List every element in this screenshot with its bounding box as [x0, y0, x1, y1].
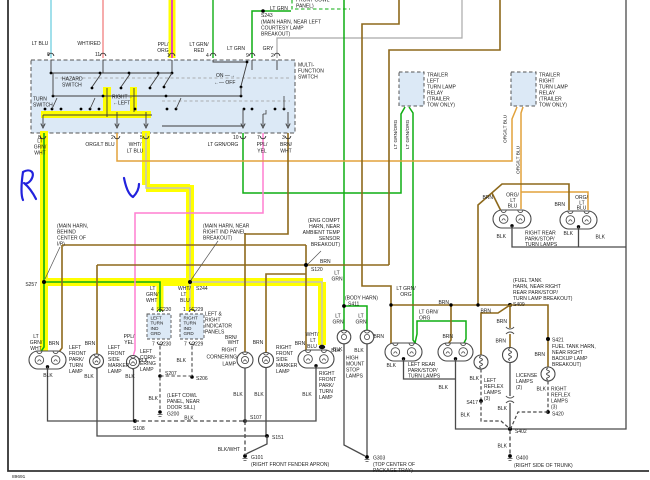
svg-text:BRN: BRN	[49, 341, 60, 347]
svg-text:⌜C229: ⌜C229	[189, 307, 204, 313]
svg-text:LAMPS: LAMPS	[346, 374, 364, 380]
svg-text:4: 4	[206, 53, 209, 59]
svg-text:PANEL): PANEL)	[296, 4, 314, 10]
svg-text:BLK/WHT: BLK/WHT	[218, 447, 240, 453]
svg-text:PPL/: PPL/	[257, 142, 268, 148]
svg-text:BRN: BRN	[85, 341, 96, 347]
svg-text:BLK: BLK	[139, 358, 149, 364]
svg-text:BLK: BLK	[461, 413, 471, 419]
svg-text:BRN: BRN	[496, 319, 507, 325]
svg-text:4: 4	[151, 307, 154, 313]
svg-text:⌜C229: ⌜C229	[189, 342, 204, 348]
svg-text:BLK: BLK	[439, 385, 449, 391]
svg-text:BLK: BLK	[125, 374, 135, 380]
svg-text:YEL: YEL	[124, 340, 134, 346]
svg-text:BLK: BLK	[564, 231, 574, 237]
svg-text:⌜C230: ⌜C230	[157, 342, 172, 348]
svg-text:←LEFT: ←LEFT	[113, 101, 130, 107]
svg-text:BLK: BLK	[84, 374, 94, 380]
svg-text:3: 3	[282, 135, 285, 141]
svg-text:BREAKOUT): BREAKOUT)	[311, 242, 341, 248]
svg-text:S411: S411	[348, 302, 360, 308]
svg-text:BRN: BRN	[438, 300, 449, 306]
svg-text:LT GRN: LT GRN	[270, 6, 288, 12]
svg-text:S243: S243	[261, 13, 273, 19]
svg-text:BLK: BLK	[331, 348, 341, 354]
svg-text:LT GRN/ORG: LT GRN/ORG	[208, 142, 239, 148]
svg-text:(3): (3)	[551, 405, 557, 411]
svg-text:WHT: WHT	[280, 149, 291, 155]
svg-text:BRN: BRN	[320, 259, 331, 265]
svg-text:S402: S402	[515, 429, 527, 435]
svg-text:G200: G200	[167, 412, 179, 418]
svg-text:BLK: BLK	[184, 416, 194, 422]
svg-text:LT GRN/ORG: LT GRN/ORG	[405, 119, 411, 149]
svg-text:LT BLU: LT BLU	[127, 149, 144, 155]
svg-text:7: 7	[257, 135, 260, 141]
svg-text:TURN LAMPS: TURN LAMPS	[408, 374, 441, 380]
svg-text:ORG: ORG	[419, 316, 431, 322]
svg-text:11: 11	[95, 52, 100, 58]
svg-text:S120: S120	[311, 267, 323, 273]
svg-text:WHT: WHT	[30, 346, 41, 352]
svg-text:ORG/LT BLU: ORG/LT BLU	[85, 142, 115, 148]
svg-text:89691: 89691	[12, 474, 26, 480]
svg-text:DOOR SILL): DOOR SILL)	[167, 405, 196, 411]
svg-text:S207: S207	[165, 371, 177, 377]
svg-text:BRN: BRN	[495, 339, 506, 345]
svg-text:G400: G400	[516, 456, 528, 462]
svg-text:WHT: WHT	[228, 340, 239, 346]
svg-text:LT GRN: LT GRN	[227, 46, 245, 52]
svg-text:GRD: GRD	[184, 331, 195, 336]
svg-text:BLK: BLK	[596, 235, 606, 241]
svg-text:ORG/LT BLU: ORG/LT BLU	[516, 145, 522, 174]
svg-text:SWITCH: SWITCH	[298, 75, 318, 81]
svg-text:BREAKOUT): BREAKOUT)	[203, 236, 233, 242]
svg-text:GRY: GRY	[263, 46, 274, 52]
svg-text:TOW ONLY): TOW ONLY)	[539, 103, 567, 109]
svg-text:1: 1	[167, 53, 170, 59]
svg-text:BLU: BLU	[508, 204, 518, 210]
svg-text:LAMP: LAMP	[222, 362, 236, 368]
svg-text:BRN: BRN	[480, 309, 491, 315]
svg-text:BREAKOUT): BREAKOUT)	[552, 362, 582, 368]
svg-text:6: 6	[47, 52, 50, 58]
svg-text:RED: RED	[194, 48, 205, 54]
svg-text:S206: S206	[196, 376, 208, 382]
svg-text:SWITCH: SWITCH	[33, 103, 53, 109]
svg-text:⌜C230: ⌜C230	[157, 307, 172, 313]
svg-text:BLK: BLK	[233, 392, 243, 398]
svg-text:I/P): I/P)	[57, 242, 65, 248]
svg-text:ORG/LT BLU: ORG/LT BLU	[503, 114, 509, 143]
svg-text:2: 2	[111, 135, 114, 141]
svg-text:(RIGHT FRONT FENDER APRON): (RIGHT FRONT FENDER APRON)	[251, 462, 329, 468]
svg-text:←— OFF: ←— OFF	[214, 80, 235, 86]
svg-text:2: 2	[271, 53, 274, 59]
svg-text:WHT: WHT	[34, 151, 45, 157]
svg-text:BRN: BRN	[373, 334, 384, 340]
svg-text:7: 7	[184, 342, 187, 348]
svg-text:GRN: GRN	[332, 320, 344, 326]
svg-text:WHT: WHT	[146, 298, 157, 304]
svg-text:LAMP: LAMP	[276, 369, 290, 375]
svg-text:BLU: BLU	[577, 206, 587, 212]
svg-text:YEL: YEL	[257, 149, 267, 155]
svg-text:9: 9	[246, 53, 249, 59]
svg-text:FRONT COWL: FRONT COWL	[296, 0, 330, 4]
svg-text:ON —→: ON —→	[216, 73, 235, 79]
svg-text:(2): (2)	[516, 385, 522, 391]
svg-text:CORNERING: CORNERING	[206, 355, 237, 361]
svg-text:S409: S409	[513, 302, 525, 308]
svg-text:GRN: GRN	[331, 277, 343, 283]
svg-text:S108: S108	[133, 426, 145, 432]
svg-text:BREAKOUT): BREAKOUT)	[261, 32, 291, 38]
svg-text:S421: S421	[552, 338, 564, 344]
svg-text:5: 5	[140, 135, 143, 141]
svg-text:GRN: GRN	[355, 320, 367, 326]
svg-text:G303: G303	[373, 456, 385, 462]
svg-text:BLK: BLK	[498, 444, 508, 450]
svg-text:LAMP: LAMP	[108, 369, 122, 375]
svg-text:BRN/: BRN/	[280, 142, 293, 148]
svg-text:BRN: BRN	[554, 202, 565, 208]
svg-text:S151: S151	[272, 435, 284, 441]
svg-text:BLK: BLK	[387, 363, 397, 369]
svg-text:BRN: BRN	[442, 334, 453, 340]
svg-text:BRN: BRN	[295, 341, 306, 347]
svg-text:BLK: BLK	[497, 234, 507, 240]
svg-text:BLK: BLK	[43, 373, 53, 379]
svg-text:S420: S420	[552, 412, 564, 418]
svg-text:BLK: BLK	[498, 406, 508, 412]
svg-text:SWITCH: SWITCH	[62, 83, 82, 89]
svg-text:TOW ONLY): TOW ONLY)	[427, 103, 455, 109]
svg-text:RIGHT: RIGHT	[221, 348, 237, 354]
svg-text:WHT/RED: WHT/RED	[77, 41, 101, 47]
svg-text:BRN: BRN	[253, 340, 264, 346]
svg-text:10: 10	[233, 135, 239, 141]
svg-text:BLK: BLK	[254, 392, 264, 398]
svg-text:BLK: BLK	[470, 376, 480, 382]
svg-text:S417: S417	[466, 400, 478, 406]
svg-text:S257: S257	[25, 282, 37, 288]
svg-text:ORG: ORG	[400, 292, 412, 298]
svg-text:PANELS: PANELS	[205, 330, 225, 336]
svg-text:BLK: BLK	[537, 387, 547, 393]
svg-text:PACKAGE TRAY): PACKAGE TRAY)	[373, 468, 413, 474]
svg-text:TURN LAMPS: TURN LAMPS	[525, 242, 558, 248]
svg-text:(RIGHT SIDE OF TRUNK): (RIGHT SIDE OF TRUNK)	[514, 463, 573, 469]
svg-text:WHT/: WHT/	[129, 142, 142, 148]
svg-text:(3): (3)	[484, 396, 490, 402]
svg-text:BLK: BLK	[302, 392, 312, 398]
svg-text:BRN: BRN	[534, 352, 545, 358]
svg-text:7: 7	[152, 342, 155, 348]
svg-text:1: 1	[183, 307, 186, 313]
svg-text:LT GRN/ORG: LT GRN/ORG	[393, 119, 399, 149]
svg-text:BRN: BRN	[482, 195, 493, 201]
svg-text:BLU: BLU	[180, 298, 190, 304]
svg-text:BLK: BLK	[354, 348, 364, 354]
svg-text:S244: S244	[196, 286, 208, 292]
svg-text:S107: S107	[250, 415, 262, 421]
svg-text:LAMP: LAMP	[69, 369, 83, 375]
svg-text:GRD: GRD	[151, 331, 162, 336]
svg-text:LAMP: LAMP	[140, 367, 154, 373]
svg-text:BLU: BLU	[307, 344, 317, 350]
svg-text:BLK: BLK	[149, 396, 159, 402]
svg-text:LAMP: LAMP	[319, 395, 333, 401]
svg-text:LT BLU: LT BLU	[32, 41, 49, 47]
svg-text:G101: G101	[251, 455, 263, 461]
svg-text:BLK: BLK	[177, 358, 187, 364]
